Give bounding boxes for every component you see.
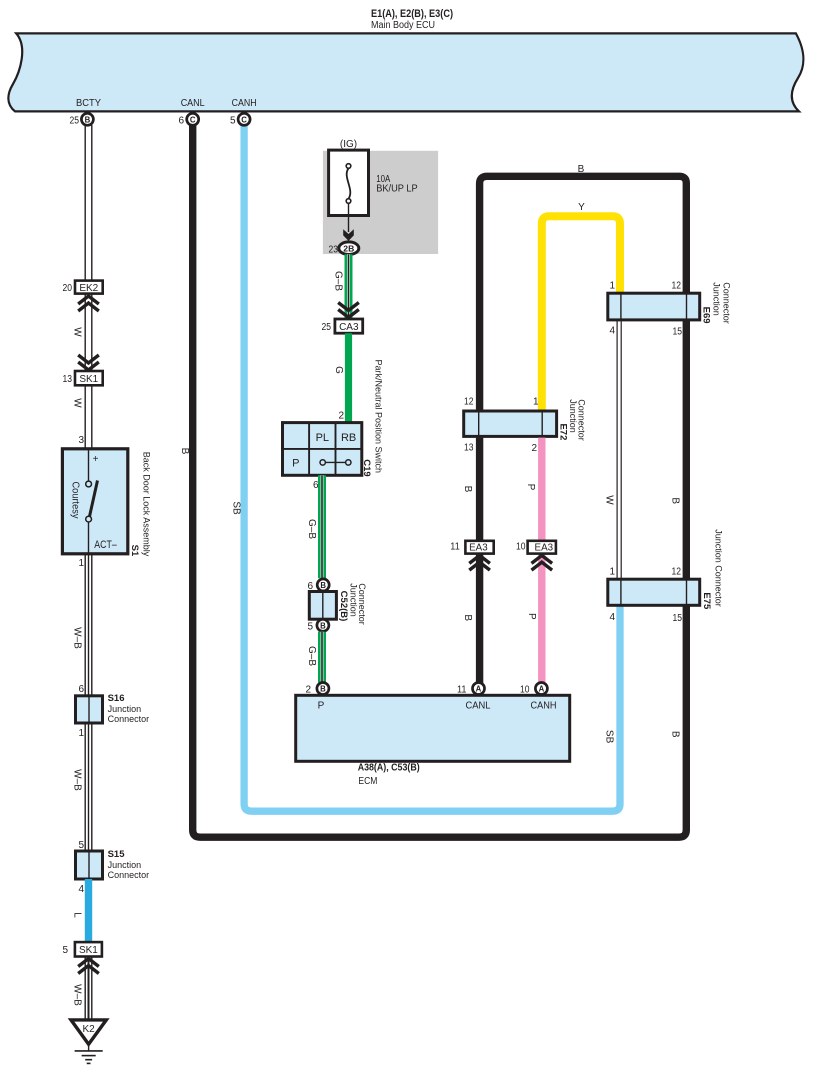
splice chevron down above CA3 <box>338 303 359 318</box>
svg-text:12: 12 <box>672 281 682 292</box>
label E69 Junction Connector <box>701 282 732 324</box>
wire G-B from 2B to CA3 <box>345 254 353 319</box>
wire G from CA3 to C19 <box>345 333 352 422</box>
svg-text:B: B <box>320 581 326 590</box>
svg-text:K2: K2 <box>82 1024 95 1035</box>
svg-text:10: 10 <box>516 542 526 553</box>
wire L below S15 <box>85 879 92 942</box>
splice chevron up below EA3-11 <box>469 555 490 570</box>
pin 5(C) CANH <box>230 113 250 126</box>
wire B from E72 pin13 to ECM <box>476 438 483 689</box>
svg-text:20: 20 <box>63 283 73 294</box>
svg-text:1: 1 <box>609 281 615 292</box>
svg-text:C19: C19 <box>361 459 372 476</box>
svg-text:Back Door Lock Assembly: Back Door Lock Assembly <box>141 452 151 557</box>
svg-text:5: 5 <box>230 115 236 126</box>
connector SK1 pin 13 <box>63 371 103 385</box>
junction connector E72 <box>464 397 557 455</box>
connector SK1 pin 5 <box>62 942 101 956</box>
pin 25(B) BCTY <box>70 113 94 126</box>
svg-text:W–B: W–B <box>72 627 83 649</box>
svg-text:25: 25 <box>70 115 80 126</box>
svg-text:SK1: SK1 <box>79 374 98 385</box>
svg-text:CA3: CA3 <box>339 322 359 333</box>
svg-text:SK1: SK1 <box>79 945 98 956</box>
svg-text:W–B: W–B <box>72 769 83 791</box>
junction connector E75 <box>608 567 700 624</box>
svg-text:Park/Neutral Position Switch: Park/Neutral Position Switch <box>373 360 383 474</box>
svg-text:4: 4 <box>609 612 615 623</box>
splice chevron down above SK1 <box>78 355 99 370</box>
svg-text:ACT–: ACT– <box>94 539 117 551</box>
label C19 Park/Neutral Position Switch <box>361 360 383 477</box>
svg-text:1: 1 <box>78 558 84 569</box>
svg-text:15: 15 <box>673 613 683 624</box>
svg-text:G–B: G–B <box>306 646 317 666</box>
label E75 Junction Connector <box>701 529 724 610</box>
svg-text:Connector: Connector <box>357 583 367 625</box>
svg-text:13: 13 <box>464 442 474 453</box>
wire Y yellow <box>542 216 620 411</box>
svg-text:E1(A), E2(B), E3(C): E1(A), E2(B), E3(C) <box>371 8 453 20</box>
svg-text:12: 12 <box>464 397 474 408</box>
wire W-B to ground <box>85 957 92 1020</box>
wire W between EK2 and SK1 <box>85 294 92 371</box>
splice chevron up below EK2 <box>78 296 99 311</box>
svg-text:SB: SB <box>231 501 242 515</box>
pin 2(B) at ECM <box>305 683 328 696</box>
svg-text:Junction: Junction <box>348 583 358 617</box>
svg-text:E72: E72 <box>557 423 568 440</box>
svg-text:Junction: Junction <box>108 704 142 714</box>
svg-text:Junction: Junction <box>108 860 142 870</box>
svg-text:P: P <box>292 458 299 470</box>
switch S1 Back Door Lock Assembly <box>62 449 127 554</box>
label E72 Junction Connector <box>557 399 586 441</box>
connector CA3 pin 25 <box>322 319 363 333</box>
svg-text:CANL: CANL <box>181 98 205 109</box>
svg-text:6: 6 <box>78 684 84 695</box>
svg-text:RB: RB <box>341 432 356 444</box>
splice chevron up below SK1 <box>78 959 99 974</box>
svg-text:B: B <box>320 685 326 694</box>
svg-text:A38(A), C53(B): A38(A), C53(B) <box>358 763 420 774</box>
wire W between SK1 and S1 <box>85 385 92 449</box>
svg-text:W: W <box>72 398 83 408</box>
svg-text:A: A <box>476 685 482 694</box>
svg-text:B: B <box>670 731 681 738</box>
svg-text:S16: S16 <box>108 693 125 704</box>
svg-text:P: P <box>525 484 536 491</box>
svg-text:Connector: Connector <box>722 282 732 324</box>
svg-text:6: 6 <box>178 115 184 126</box>
junction connector C52(B) <box>307 579 336 632</box>
wire W between E69 and E75 <box>617 320 621 579</box>
svg-text:12: 12 <box>672 567 682 578</box>
svg-text:W: W <box>604 495 615 505</box>
svg-text:L: L <box>72 912 83 918</box>
pin 6(C) CANL <box>178 113 198 126</box>
svg-text:2: 2 <box>531 443 537 454</box>
svg-text:BCTY: BCTY <box>76 98 101 109</box>
svg-text:B: B <box>462 486 473 493</box>
svg-text:G–B: G–B <box>333 271 344 291</box>
ground K2 <box>71 1020 106 1064</box>
svg-text:Junction: Junction <box>568 399 578 433</box>
svg-text:1: 1 <box>609 567 615 578</box>
Main Body ECU band <box>8 33 803 111</box>
svg-text:B: B <box>578 164 585 175</box>
svg-text:B: B <box>320 621 326 630</box>
svg-text:CANH: CANH <box>531 701 557 712</box>
splice chevron up below EA3-10 <box>532 555 553 570</box>
junction connector S16 <box>76 684 150 739</box>
svg-text:B: B <box>85 115 91 124</box>
svg-text:5: 5 <box>62 945 68 956</box>
svg-text:PL: PL <box>316 432 329 444</box>
svg-text:Junction Connector: Junction Connector <box>714 529 724 607</box>
wire P from E72 pin2 to ECM <box>538 438 545 689</box>
connector EK2 pin 20 <box>63 281 103 294</box>
svg-text:EK2: EK2 <box>79 283 98 294</box>
wire G-B from C52 to ECM <box>318 632 326 683</box>
svg-text:G–B: G–B <box>306 519 317 539</box>
svg-text:Y: Y <box>578 202 585 213</box>
svg-text:S15: S15 <box>108 849 126 860</box>
svg-text:EA3: EA3 <box>535 543 554 554</box>
arrow down solid <box>343 229 354 241</box>
svg-text:CANL: CANL <box>466 701 491 712</box>
svg-text:Main Body ECU: Main Body ECU <box>371 20 435 31</box>
wire SB from CANH <box>244 125 620 811</box>
svg-text:15: 15 <box>673 327 683 338</box>
junction connector S15 <box>76 840 150 895</box>
svg-text:C52(B): C52(B) <box>338 591 349 622</box>
svg-text:C: C <box>241 115 247 124</box>
svg-text:SB: SB <box>604 730 615 744</box>
svg-text:25: 25 <box>322 322 332 333</box>
svg-text:11: 11 <box>450 542 460 553</box>
svg-text:2: 2 <box>338 411 344 422</box>
pin 10(A) at ECM <box>520 683 547 696</box>
ECU title E1(A), E2(B), E3(C) <box>371 8 453 31</box>
svg-text:5: 5 <box>307 621 313 632</box>
svg-text:13: 13 <box>63 374 73 385</box>
svg-text:4: 4 <box>78 884 84 895</box>
svg-text:EA3: EA3 <box>469 543 488 554</box>
wire G-B from C19 to C52 <box>318 475 326 578</box>
label C52(B) Junction Connector <box>338 583 367 625</box>
wire W from BCTY <box>85 125 92 281</box>
svg-text:E69: E69 <box>701 307 712 324</box>
switch C19 Park/Neutral Position Switch <box>283 423 362 476</box>
fuse block grey area <box>323 151 438 254</box>
svg-text:B: B <box>179 448 190 455</box>
svg-text:G: G <box>333 366 344 374</box>
connector EA3 pin 11 <box>450 541 493 554</box>
label S1 Back Door Lock Assembly <box>129 452 151 557</box>
svg-text:(IG): (IG) <box>340 139 357 150</box>
svg-text:ECM: ECM <box>358 776 377 787</box>
fuse 10A BK/UP LP <box>329 150 418 215</box>
svg-text:B: B <box>462 614 473 621</box>
svg-text:C: C <box>190 115 196 124</box>
svg-text:Courtesy: Courtesy <box>69 482 80 519</box>
wire W-B below S16 <box>85 723 92 851</box>
svg-text:E75: E75 <box>701 592 712 610</box>
connector EA3 pin 10 <box>516 541 556 554</box>
wire W-B below S1 <box>85 554 92 696</box>
svg-text:2B: 2B <box>343 244 354 253</box>
svg-text:S1: S1 <box>129 545 140 557</box>
svg-text:BK/UP LP: BK/UP LP <box>376 184 418 195</box>
svg-text:P: P <box>526 613 537 620</box>
svg-text:+: + <box>93 454 99 465</box>
svg-text:P: P <box>318 701 325 712</box>
svg-text:1: 1 <box>533 397 539 408</box>
svg-text:Connector: Connector <box>108 714 150 724</box>
svg-text:1: 1 <box>78 728 84 739</box>
svg-text:23: 23 <box>329 245 339 256</box>
svg-text:B: B <box>670 497 681 504</box>
wire B from CANL vertical <box>193 125 687 837</box>
ECU box ECM A38(A), C53(B) <box>296 695 570 787</box>
pin 11(A) at ECM <box>457 683 485 696</box>
svg-text:W–B: W–B <box>72 984 83 1006</box>
svg-text:4: 4 <box>609 326 615 337</box>
svg-text:Connector: Connector <box>577 399 587 441</box>
svg-text:W: W <box>72 327 83 337</box>
wire from fuse to pin 23 <box>348 203 350 232</box>
svg-text:CANH: CANH <box>232 98 257 109</box>
svg-text:5: 5 <box>78 840 84 851</box>
svg-text:Junction: Junction <box>712 282 722 316</box>
pin 23 (2B) <box>329 242 359 256</box>
svg-text:3: 3 <box>78 435 84 446</box>
junction connector E69 <box>608 281 700 338</box>
svg-text:A: A <box>539 685 545 694</box>
svg-text:Connector: Connector <box>108 870 150 880</box>
